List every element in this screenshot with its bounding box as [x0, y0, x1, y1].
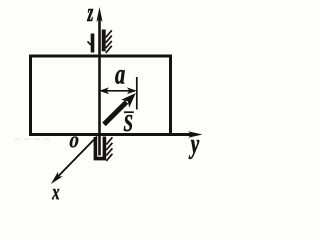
bottom bearing: cup — [95, 137, 104, 159]
label a — [115, 70, 124, 84]
axis y (wire) — [31, 133, 194, 136]
top bearing: right bar — [102, 30, 106, 52]
top bearing: left bar — [91, 34, 95, 53]
top bearing: right hatching — [106, 30, 112, 53]
axis x (wire) — [56, 137, 97, 179]
line of action tick — [136, 77, 138, 110]
label S — [124, 115, 132, 131]
dimension a: double arrow — [101, 90, 135, 92]
axis z (wire) — [98, 15, 101, 156]
dimension a: left arrowhead — [99, 87, 109, 94]
arrowhead z — [96, 7, 102, 22]
bottom bearing: right hatching — [106, 137, 112, 161]
vector S arrowhead — [121, 93, 136, 108]
overbar of S — [124, 111, 134, 113]
dimension a: right arrowhead — [127, 87, 137, 94]
arrowhead x — [51, 172, 63, 184]
arrowhead y — [188, 131, 203, 138]
label z — [87, 9, 93, 21]
label x — [52, 189, 59, 199]
vector S shaft — [104, 102, 127, 124]
label y — [189, 140, 199, 159]
label 0 (origin) — [70, 137, 78, 148]
plate (rectangular body) — [31, 56, 171, 135]
scan smudge below bottom-left edge (decorative, faint) — [14, 138, 54, 140]
top bearing: left hatch tick — [88, 42, 92, 46]
